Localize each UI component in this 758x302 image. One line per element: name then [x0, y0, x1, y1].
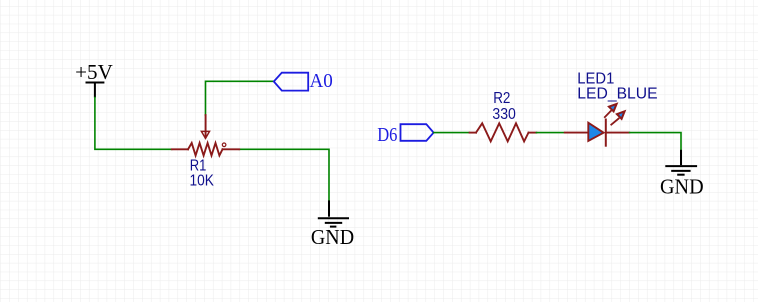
net port A0: [274, 70, 333, 92]
resistor R2: [470, 123, 537, 141]
LED LED1: [565, 104, 630, 147]
svg-text:330: 330: [492, 106, 516, 123]
wire R2 to LED1: [536, 132, 564, 134]
svg-text:GND: GND: [660, 175, 704, 199]
svg-text:+5V: +5V: [75, 60, 113, 84]
ground GND1: [311, 200, 354, 249]
ground GND2: [660, 150, 704, 199]
wire D6 to R2: [434, 132, 470, 134]
svg-text:A0: A0: [310, 70, 333, 92]
wire LED1 to GND: [630, 133, 681, 150]
svg-text:D6: D6: [377, 124, 397, 146]
svg-text:LED_BLUE: LED_BLUE: [577, 86, 657, 103]
power +5V: [75, 60, 113, 98]
wire R1 right to GND: [239, 149, 329, 200]
wire R1 wiper to A0: [206, 81, 274, 115]
net port D6: [377, 124, 433, 146]
svg-text:GND: GND: [311, 225, 354, 249]
potentiometer R1: [172, 115, 239, 155]
svg-text:10K: 10K: [190, 173, 215, 190]
wire +5V to R1 left: [95, 98, 172, 150]
svg-text:R2: R2: [493, 90, 510, 107]
